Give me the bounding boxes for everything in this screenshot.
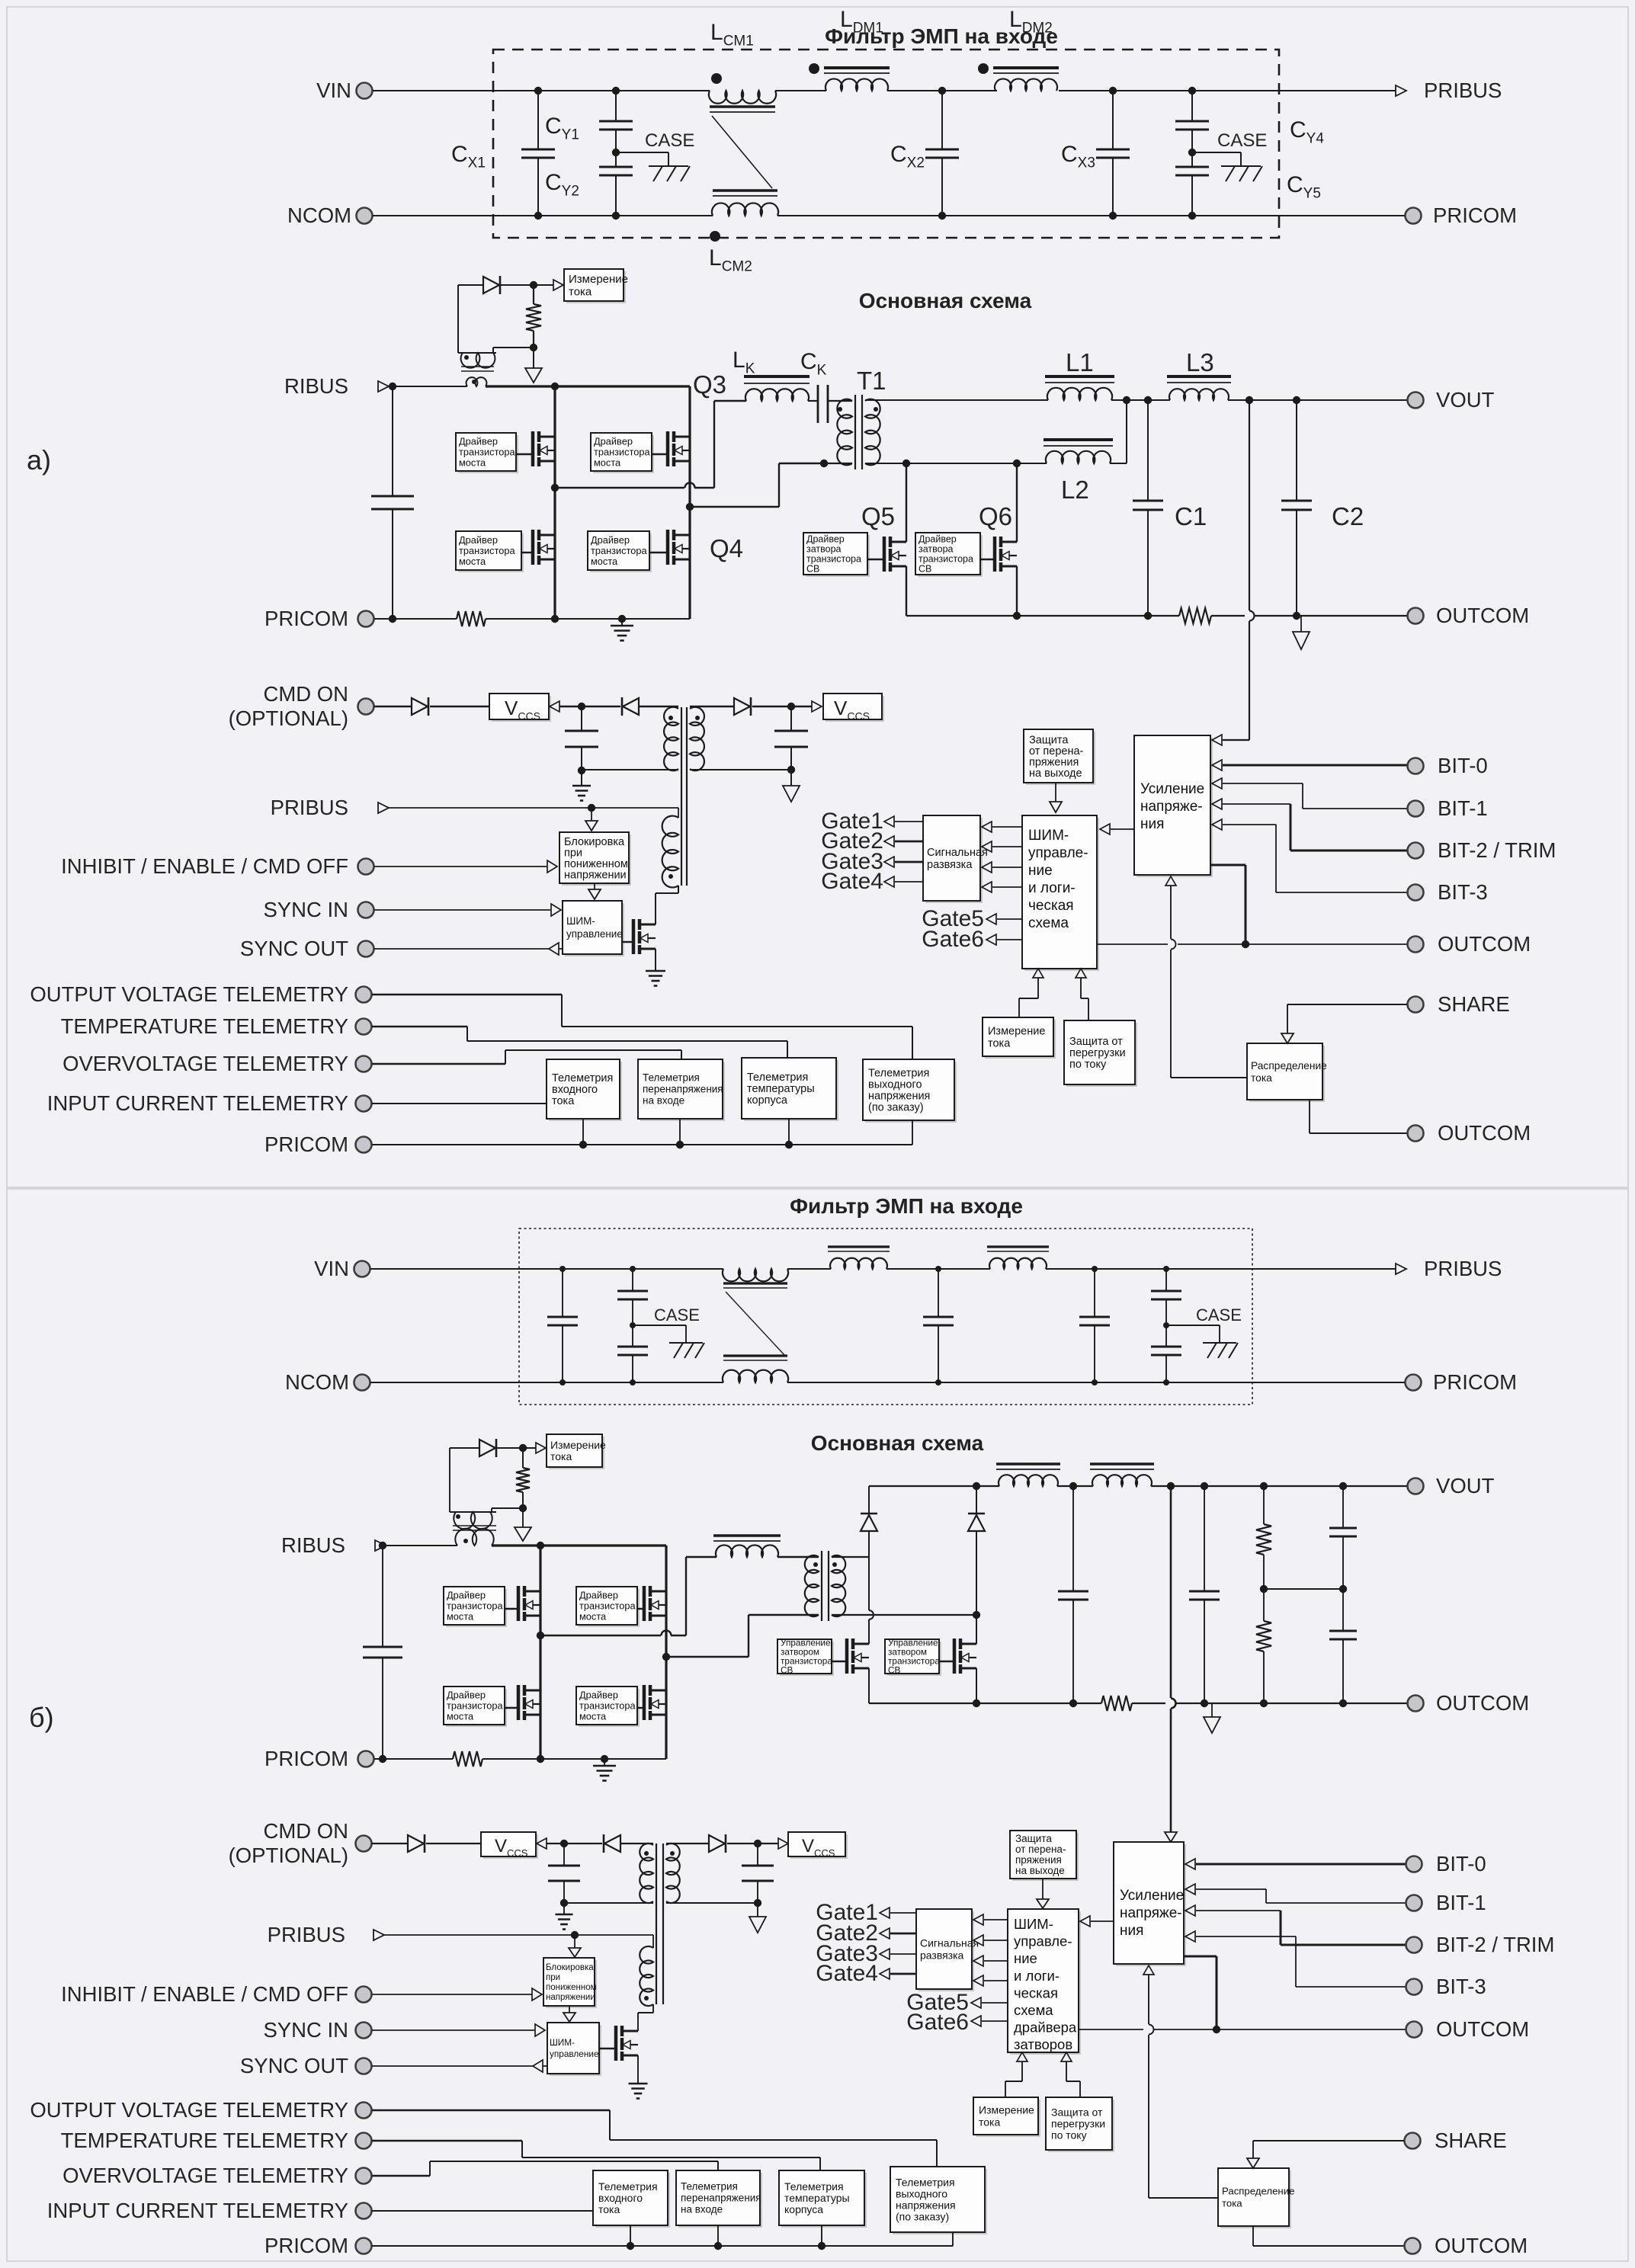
driver box Q3 b bbox=[579, 1589, 640, 1627]
wire OUTCOM rail a bbox=[906, 615, 1179, 617]
box current measurement ctrl a bbox=[985, 1020, 1056, 1059]
ground triangle OUTCOM b bbox=[1211, 1703, 1213, 1717]
wire SYNC IN a bbox=[374, 909, 550, 911]
arrow SYNC OUT b bbox=[533, 2060, 543, 2072]
terminal RIBUS a bbox=[378, 381, 389, 392]
wire share feed a bbox=[1170, 886, 1172, 939]
phase dot LCM1 bbox=[711, 73, 722, 84]
junction current sense b bbox=[519, 1444, 527, 1452]
junction Q5 drain a bbox=[902, 460, 910, 467]
svg-text:CASE: CASE bbox=[1196, 1305, 1242, 1325]
box telemetry input overvoltage b bbox=[678, 2173, 762, 2228]
capacitor C1 bbox=[1147, 400, 1149, 501]
phase dot CMD trans left a bbox=[668, 716, 673, 720]
svg-text:BIT-1: BIT-1 bbox=[1436, 1891, 1486, 1914]
svg-text:а): а) bbox=[27, 444, 51, 476]
svg-text:PRICOM: PRICOM bbox=[264, 2234, 348, 2257]
svg-text:SHARE: SHARE bbox=[1435, 2129, 1507, 2152]
wire RIBUS rail a bbox=[389, 386, 467, 387]
svg-text:INPUT CURRENT TELEMETRY: INPUT CURRENT TELEMETRY bbox=[47, 2199, 348, 2222]
terminal PRICOM a bbox=[358, 611, 374, 627]
wire bridge output to inductor b bbox=[540, 1635, 661, 1636]
capacitor CX2 bbox=[941, 91, 943, 149]
wire SYNC OUT b bbox=[372, 2065, 533, 2067]
junction OUTCOM mid b bbox=[1213, 2026, 1220, 2033]
junction left leg bottom b bbox=[537, 1755, 544, 1763]
capacitor CMD right b bbox=[757, 1844, 758, 1866]
wire diode to meter b bbox=[497, 1447, 537, 1449]
junction telemetry 3 b bbox=[821, 2225, 822, 2246]
junction telemetry 1 b bbox=[630, 2225, 631, 2246]
wire NCOM line b bbox=[370, 1382, 723, 1383]
svg-text:BIT-2 / TRIM: BIT-2 / TRIM bbox=[1438, 838, 1556, 862]
wire overvoltage telemetry a bbox=[372, 1063, 505, 1065]
arrow isolation in 4 a bbox=[982, 882, 992, 892]
diode to transformer a bbox=[621, 697, 624, 716]
transistor CB1 b bbox=[832, 1661, 848, 1662]
terminal PRICOM b bbox=[1406, 1375, 1422, 1391]
wire VIN line b bbox=[370, 1268, 723, 1270]
wire amp to OUTCOM b bbox=[1184, 1956, 1217, 1958]
svg-text:L2: L2 bbox=[1061, 476, 1089, 504]
junction cap2 CMD b bbox=[754, 1840, 761, 1847]
junction left leg bottom a bbox=[551, 615, 559, 623]
arrow amp in BIT3 a bbox=[1212, 819, 1222, 830]
terminal OUTCOM mid b bbox=[1406, 2022, 1422, 2038]
svg-text:Блокировкаприпониженномнапряже: Блокировкаприпониженномнапряжении bbox=[564, 836, 628, 882]
resistor current sense b bbox=[522, 1448, 524, 1468]
terminal PRICOM telemetry a bbox=[356, 1137, 372, 1153]
capacitor CY2 bbox=[615, 130, 617, 167]
svg-text:OUTCOM: OUTCOM bbox=[1436, 2017, 1529, 2041]
svg-text:VOUT: VOUT bbox=[1436, 388, 1495, 412]
transistor Q3 a bbox=[652, 453, 668, 455]
diode output right a bbox=[734, 698, 750, 715]
box voltage amplifier b bbox=[1116, 1844, 1186, 1966]
svg-text:INPUT CURRENT TELEMETRY: INPUT CURRENT TELEMETRY bbox=[47, 1091, 348, 1115]
arrow PWM in current meas a bbox=[1033, 969, 1044, 978]
capacitor CY4 bbox=[1191, 91, 1193, 121]
earth ground PWM a bbox=[646, 970, 665, 972]
svg-text:CASE: CASE bbox=[1217, 130, 1267, 151]
wire VCCS to transformer b bbox=[547, 1843, 602, 1844]
junction cap divider mid b bbox=[1339, 1585, 1347, 1593]
terminal OVERVOLTAGE TELEMETRY b bbox=[356, 2168, 372, 2184]
wire input current telemetry a bbox=[372, 1103, 547, 1104]
chassis ground CASE right bbox=[1221, 165, 1261, 167]
terminal INPUT CURRENT TELEMETRY b bbox=[356, 2203, 372, 2219]
capacitor CY5 bbox=[1191, 130, 1193, 167]
arrow SYNC IN a bbox=[551, 904, 561, 916]
wire right bridge leg a bbox=[688, 386, 691, 619]
box PWM control b bbox=[550, 2025, 601, 2076]
panel frame a bbox=[7, 7, 1628, 1187]
arrow into VCCS right a bbox=[812, 701, 822, 712]
transistor Q4 a bbox=[649, 552, 668, 553]
terminal SHARE a bbox=[1408, 997, 1424, 1013]
ground triangle CMD right b bbox=[757, 1903, 758, 1917]
phase dot CT secondary a bbox=[464, 355, 469, 360]
terminal OUTCOM bottom a bbox=[1408, 1126, 1424, 1142]
wire PRICOM telemetry b bbox=[372, 2245, 953, 2247]
arrow isolation in 1 a bbox=[982, 822, 992, 832]
transistor Q1 bridge a bbox=[516, 453, 534, 455]
box current measurement a bbox=[566, 271, 626, 303]
wire VOUT rail b bbox=[869, 1485, 999, 1487]
svg-text:Gate6: Gate6 bbox=[922, 927, 984, 952]
capacitor CY1 b bbox=[632, 1269, 633, 1291]
wire VIN line bbox=[373, 90, 710, 91]
capacitor CY2 b bbox=[632, 1299, 633, 1347]
wire CMD ON b bbox=[372, 1843, 408, 1844]
svg-text:Gate4: Gate4 bbox=[821, 869, 883, 894]
capacitor CY5 b bbox=[1165, 1299, 1167, 1347]
junction OUTCOM mid a bbox=[1242, 940, 1249, 948]
capacitor CY4 b bbox=[1165, 1269, 1167, 1291]
arrow amp bottom in b bbox=[1143, 1965, 1154, 1975]
svg-text:SYNC IN: SYNC IN bbox=[263, 898, 348, 921]
svg-text:(OPTIONAL): (OPTIONAL) bbox=[229, 706, 348, 730]
choke LCM1 coupling diagonal bbox=[712, 116, 772, 188]
svg-text:L1: L1 bbox=[1066, 348, 1094, 376]
arrow into current meter a bbox=[553, 280, 563, 290]
node B bridge b bbox=[662, 1653, 670, 1661]
driver box Q2 a bbox=[458, 533, 524, 572]
wire PRICOM rail a bbox=[374, 618, 457, 620]
inductor L3 bbox=[1167, 375, 1231, 378]
node CASE tap b-right bbox=[1163, 1322, 1169, 1328]
phase dot T secondary b bbox=[832, 1562, 837, 1567]
wire right bridge leg b bbox=[665, 1546, 667, 1759]
phase dot CMD left b bbox=[644, 1851, 649, 1856]
inductor LDM2 bbox=[993, 66, 1059, 69]
arrow amp BIT3 b bbox=[1185, 1931, 1195, 1942]
driver box Q6 bbox=[918, 535, 983, 577]
wire diode to box a bbox=[501, 284, 554, 286]
wire input current telemetry b bbox=[372, 2210, 593, 2212]
capacitor C2 bbox=[1296, 400, 1297, 501]
rectifier diode D1 b bbox=[868, 1486, 870, 1513]
box telemetry case temperature b bbox=[781, 2173, 867, 2228]
box signal isolation b bbox=[918, 1911, 974, 1991]
arrow into UVLO b bbox=[574, 1935, 575, 1948]
svg-text:SYNC IN: SYNC IN bbox=[263, 2018, 348, 2042]
svg-text:CMD ON: CMD ON bbox=[263, 682, 348, 706]
phase dot CT primary a bbox=[472, 380, 476, 384]
terminal INHIBIT b bbox=[356, 1987, 372, 2003]
svg-text:PRIBUS: PRIBUS bbox=[1424, 78, 1502, 102]
terminal INPUT CURRENT TELEMETRY a bbox=[356, 1096, 372, 1112]
terminal BIT-1 a bbox=[1408, 801, 1424, 817]
transformer T b bbox=[805, 1555, 819, 1616]
junction T1 primary bottom a bbox=[820, 460, 828, 467]
wire CMD right bottom b bbox=[666, 1902, 758, 1904]
svg-text:BIT-0: BIT-0 bbox=[1438, 754, 1488, 777]
wire CT secondary to diode a bbox=[457, 285, 459, 353]
svg-text:Телеметриявыходногонапряжения(: Телеметриявыходногонапряжения(по заказу) bbox=[896, 2176, 956, 2222]
wire left bridge leg b bbox=[539, 1546, 541, 1759]
resistor PRICOM a bbox=[457, 611, 486, 626]
svg-text:(OPTIONAL): (OPTIONAL) bbox=[229, 1844, 348, 1867]
wire telemetry 4 b bbox=[952, 2232, 954, 2246]
terminal OUTCOM main a bbox=[1408, 608, 1424, 624]
wire output voltage telemetry b bbox=[372, 2109, 610, 2112]
terminal BIT-0 a bbox=[1408, 758, 1424, 774]
terminal PRIBUS b bbox=[1396, 1264, 1406, 1274]
transistor CB2 b bbox=[939, 1661, 955, 1662]
wire share feed b bbox=[1148, 1975, 1149, 2024]
arrow isolation in 2 a bbox=[982, 841, 992, 852]
terminal PRIBUS control a bbox=[378, 802, 389, 813]
chassis ground CASE left bbox=[649, 165, 688, 167]
phase dot LDM1 bbox=[809, 63, 819, 74]
junction cap1 CMD b bbox=[560, 1840, 568, 1847]
svg-text:Q6: Q6 bbox=[979, 502, 1012, 530]
transformer CMD a windings bbox=[664, 707, 678, 770]
svg-text:NCOM: NCOM bbox=[285, 1370, 349, 1394]
phase dot CT secondary b bbox=[456, 1514, 460, 1519]
box telemetry input current a bbox=[549, 1062, 622, 1121]
terminal NCOM b bbox=[354, 1375, 370, 1391]
box telemetry output voltage a bbox=[865, 1062, 957, 1123]
box telemetry case temperature a bbox=[744, 1060, 838, 1121]
svg-text:SHARE: SHARE bbox=[1438, 992, 1510, 1016]
wire telemetry 4 a bbox=[912, 1120, 913, 1145]
node A bridge output a bbox=[551, 484, 559, 492]
transistor Q2 b bbox=[505, 1707, 519, 1709]
box VCCS left a bbox=[492, 696, 551, 722]
wire secondary bottom b bbox=[832, 1614, 976, 1616]
wire CMD ON a bbox=[374, 706, 412, 707]
wire CMD right winding bottom a bbox=[690, 769, 791, 770]
wire T1 secondary bottom a bbox=[865, 463, 906, 464]
box UVLO a bbox=[562, 834, 631, 886]
choke LCM1 bottom winding bbox=[713, 189, 777, 192]
box overcurrent protection b bbox=[1048, 2100, 1114, 2152]
terminal NCOM bbox=[357, 208, 373, 224]
wire temperature telemetry a bbox=[372, 1026, 467, 1028]
arrow Gate5 b bbox=[971, 1997, 981, 2008]
ground arrow current sense a bbox=[533, 348, 534, 368]
resistor current sense a bbox=[533, 285, 534, 304]
phase dot T1 primary bbox=[838, 407, 842, 412]
terminal PRICOM telemetry b bbox=[356, 2238, 372, 2254]
inductor LDM1 bbox=[824, 66, 890, 69]
phase dot T1 secondary bbox=[874, 407, 878, 412]
box current measurement b bbox=[549, 1437, 604, 1469]
arrow OVP to PWM b bbox=[1042, 1879, 1044, 1899]
terminal INHIBIT a bbox=[358, 859, 374, 875]
arrow amp to PWM b bbox=[1080, 1916, 1090, 1927]
junction current sense a bbox=[530, 281, 537, 289]
terminal OVERVOLTAGE TELEMETRY a bbox=[356, 1056, 372, 1072]
svg-text:Gate4: Gate4 bbox=[816, 1961, 878, 1986]
terminal SYNC OUT b bbox=[356, 2058, 372, 2074]
wire diode1 to FET1 drain b bbox=[868, 1557, 870, 1610]
svg-text:Gate6: Gate6 bbox=[906, 2010, 969, 2035]
box VCCS right b bbox=[790, 1834, 848, 1859]
svg-text:NCOM: NCOM bbox=[287, 203, 351, 227]
svg-text:BIT-3: BIT-3 bbox=[1438, 880, 1488, 904]
junction D2 FET2 b bbox=[973, 1611, 980, 1619]
box PWM logic b bbox=[1010, 1911, 1081, 2055]
transistor Q4 b bbox=[637, 1707, 645, 1709]
transformer CMD a lower winding bbox=[662, 816, 678, 888]
junction PRIBUS tap a bbox=[588, 804, 595, 812]
node CASE tap b-left bbox=[630, 1322, 636, 1328]
box current share b bbox=[1220, 2170, 1291, 2228]
transistor Q3 b bbox=[637, 1608, 645, 1610]
junction cap1 CMD a bbox=[578, 703, 585, 710]
wire NCOM line bbox=[373, 215, 713, 216]
arrow isolation in 3 a bbox=[982, 862, 992, 873]
terminal BIT-2/TRIM a bbox=[1408, 843, 1424, 859]
svg-text:PRICOM: PRICOM bbox=[1433, 203, 1517, 227]
arrow Gate2 b bbox=[880, 1928, 890, 1939]
arrow UVLO to PWM a bbox=[594, 883, 595, 889]
junction CMD right bottom b bbox=[754, 1899, 761, 1907]
capacitor C2 b bbox=[1201, 1482, 1208, 1490]
wire INHIBIT a bbox=[374, 866, 547, 867]
capacitor CX3 bbox=[1112, 91, 1114, 149]
diode to transformer b bbox=[603, 1834, 605, 1853]
wire CMD left winding bottom b bbox=[564, 1902, 653, 1904]
svg-text:C1: C1 bbox=[1175, 502, 1207, 530]
choke LCM1 top winding bbox=[709, 91, 776, 104]
wire PWM mosfet source b bbox=[637, 2055, 639, 2084]
wire to CT secondary right b bbox=[492, 1507, 523, 1509]
EMI filter dotted box b bbox=[519, 1228, 1252, 1405]
junction Q6 drain a bbox=[1013, 460, 1021, 467]
phase dot CMD right b bbox=[670, 1851, 675, 1856]
inductor LDM1 b bbox=[828, 1245, 890, 1248]
wire CMD left winding bottom a bbox=[582, 769, 678, 770]
svg-text:Основная схема: Основная схема bbox=[811, 1431, 984, 1455]
terminal BIT-1 b bbox=[1406, 1895, 1422, 1911]
junction cap2 CMD a bbox=[787, 703, 795, 710]
arrow amp in BIT1 a bbox=[1212, 778, 1222, 789]
wire SYNC OUT a bbox=[374, 948, 549, 950]
terminal PRIBUS control b bbox=[373, 1930, 384, 1940]
transformer CMD b windings bbox=[640, 1844, 653, 1903]
svg-text:Телеметриявыходногонапряжения(: Телеметриявыходногонапряжения(по заказу) bbox=[868, 1068, 930, 1114]
inductor LDM2 b bbox=[987, 1245, 1049, 1248]
junction PRIBUS tap b bbox=[571, 1931, 579, 1939]
junction telemetry 2 a bbox=[679, 1119, 681, 1145]
svg-text:C2: C2 bbox=[1332, 502, 1364, 530]
terminal BIT-3 b bbox=[1406, 1979, 1422, 1995]
node B bridge a bbox=[686, 503, 694, 511]
resistor divider bottom b bbox=[1263, 1589, 1265, 1621]
svg-text:RIBUS: RIBUS bbox=[281, 1533, 345, 1557]
arrow Gate2 a bbox=[884, 836, 894, 847]
ground triangle OUTCOM a bbox=[1300, 616, 1302, 632]
svg-text:L3: L3 bbox=[1186, 348, 1214, 376]
driver box Q4 b bbox=[579, 1689, 640, 1727]
box UVLO b bbox=[546, 1960, 597, 2008]
svg-text:VIN: VIN bbox=[316, 78, 351, 102]
box VCCS left b bbox=[483, 1834, 538, 1859]
terminal BIT-0 b bbox=[1406, 1856, 1422, 1872]
arrow Gate6 a bbox=[986, 934, 996, 945]
capacitor divider top b bbox=[1339, 1482, 1347, 1490]
arrow Gate6 b bbox=[971, 2016, 981, 2026]
box telemetry input overvoltage a bbox=[640, 1062, 725, 1121]
phase dot CMD lower a bbox=[668, 874, 673, 879]
capacitor CX3 b bbox=[1094, 1269, 1095, 1317]
terminal BIT-3 a bbox=[1408, 885, 1424, 901]
junction telemetry 3 a bbox=[788, 1119, 790, 1145]
box VCCS right a bbox=[826, 696, 884, 722]
choke LCM top winding b bbox=[723, 1269, 788, 1281]
arrow UVLO to PWM b bbox=[569, 2006, 570, 2013]
junction L2 top a bbox=[1123, 396, 1130, 404]
junction ground CMD b bbox=[560, 1899, 568, 1907]
output choke La b bbox=[996, 1462, 1060, 1466]
input capacitor bridge b bbox=[382, 1546, 383, 1647]
wire PWM mosfet source a bbox=[655, 949, 656, 971]
wire lower winding to mosfet b bbox=[652, 2004, 654, 2013]
node CASE tap a-left bbox=[612, 149, 620, 156]
svg-text:Q5: Q5 bbox=[861, 502, 895, 530]
driver box Q3 a bbox=[593, 435, 654, 473]
svg-text:PRIBUS: PRIBUS bbox=[1424, 1257, 1502, 1280]
terminal SYNC IN b bbox=[356, 2023, 372, 2039]
svg-text:Q4: Q4 bbox=[710, 534, 743, 562]
svg-text:PRICOM: PRICOM bbox=[264, 607, 348, 630]
arrow amp in feedback a bbox=[1212, 735, 1222, 745]
arrow into VCCS left a bbox=[550, 701, 559, 712]
phase dot T primary b bbox=[813, 1562, 818, 1567]
phase dot LDM2 bbox=[978, 63, 989, 74]
box overvoltage protection a bbox=[1026, 732, 1095, 785]
wire share box to OUTCOM a bbox=[1309, 1100, 1310, 1133]
wire to CT secondary right a bbox=[493, 347, 534, 348]
arrow isolation in 4 b bbox=[973, 1975, 983, 1986]
transistor Q1 b bbox=[505, 1608, 519, 1610]
ground triangle CMD right a bbox=[790, 770, 792, 786]
wire CMD right winding top a bbox=[690, 706, 734, 707]
earth ground CMD b bbox=[563, 1903, 565, 1914]
terminal PRIBUS bbox=[1396, 85, 1406, 96]
svg-text:OUTCOM: OUTCOM bbox=[1436, 1691, 1529, 1715]
svg-text:SYNC OUT: SYNC OUT bbox=[240, 937, 348, 960]
arrow amp BIT2 b bbox=[1185, 1905, 1195, 1916]
capacitor CK bbox=[817, 385, 819, 423]
svg-text:TEMPERATURE TELEMETRY: TEMPERATURE TELEMETRY bbox=[61, 1014, 348, 1038]
terminal VIN bbox=[357, 83, 373, 99]
wire CMD right winding top b bbox=[666, 1843, 709, 1844]
terminal TEMPERATURE TELEMETRY a bbox=[356, 1019, 372, 1035]
earth ground PWM b bbox=[629, 2083, 648, 2085]
wire secondary top b bbox=[832, 1556, 869, 1558]
arrow Gate4 a bbox=[884, 876, 894, 887]
driver box Q1 b bbox=[446, 1589, 507, 1627]
svg-text:CASE: CASE bbox=[645, 130, 694, 151]
choke LCM coupling diagonal b bbox=[726, 1292, 785, 1356]
terminal OUTPUT VOLTAGE TELEMETRY a bbox=[356, 987, 372, 1003]
box telemetry output voltage b bbox=[893, 2169, 987, 2234]
svg-text:BIT-1: BIT-1 bbox=[1438, 796, 1488, 820]
arrow into VCCS right b bbox=[778, 1838, 788, 1849]
box gate control CB1 b bbox=[780, 1642, 834, 1676]
wire node B to T1 primary bottom a bbox=[690, 506, 779, 508]
terminal OUTPUT VOLTAGE TELEMETRY b bbox=[356, 2103, 372, 2119]
wire temperature telemetry b bbox=[372, 2140, 522, 2142]
wire SHARE a bbox=[1287, 1004, 1407, 1005]
wire INHIBIT b bbox=[372, 1994, 532, 1995]
svg-text:OVERVOLTAGE TELEMETRY: OVERVOLTAGE TELEMETRY bbox=[63, 2164, 348, 2187]
